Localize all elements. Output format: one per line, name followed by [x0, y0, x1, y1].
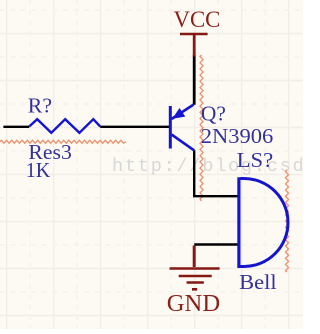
svg-text:GND: GND: [167, 290, 220, 317]
svg-text:2N3906: 2N3906: [201, 124, 273, 148]
svg-text:R?: R?: [28, 94, 52, 118]
svg-text:LS?: LS?: [237, 148, 274, 172]
svg-text:Bell: Bell: [239, 270, 277, 294]
svg-text:VCC: VCC: [174, 7, 221, 32]
svg-text:Q?: Q?: [201, 101, 226, 125]
svg-text:1K: 1K: [26, 158, 51, 182]
svg-text:http://blog.csdn: http://blog.csdn: [112, 156, 303, 177]
